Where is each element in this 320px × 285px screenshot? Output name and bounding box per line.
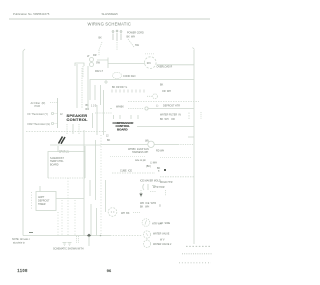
svg-text:RD: RD (86, 108, 90, 111)
svg-text:BK: BK (160, 84, 164, 87)
svg-text:ICE MAKER MOLD: ICE MAKER MOLD (140, 180, 161, 183)
wire compressor feed (108, 63, 145, 65)
EPTC box entry tick (57, 146, 59, 152)
timer text (38, 196, 50, 206)
wire light switch down (82, 66, 84, 78)
svg-text:BK OR RD YL: BK OR RD YL (112, 86, 128, 89)
ground symbol 2 (68, 243, 72, 246)
svg-text:SW: SW (135, 44, 140, 47)
svg-text:W V: W V (160, 239, 165, 242)
svg-text:BOARD: BOARD (50, 163, 59, 166)
bottom bus solid (23, 235, 110, 237)
left rail (22, 51, 24, 236)
svg-text:LO SIDE: LO SIDE (160, 222, 171, 225)
svg-text:WH/BK: WH/BK (116, 106, 124, 109)
dashed hor y113 (95, 112, 112, 114)
center vertical v91 (90, 204, 92, 236)
svg-text:SW: SW (96, 62, 101, 65)
right ticks (200, 112, 202, 119)
EPTC box (48, 152, 85, 179)
center vertical v96 (96, 208, 98, 236)
ice maker bracket (143, 184, 144, 190)
defrost timer box (36, 192, 56, 211)
ccb pin ticks (113, 115, 115, 119)
lamp circle 1 (90, 58, 94, 62)
dotted row y156.5 (110, 156, 145, 158)
connector J1 dark blob (59, 137, 66, 144)
timer dashed left (31, 192, 33, 210)
board pin tick row (112, 90, 144, 93)
svg-text:FRZ LT: FRZ LT (95, 70, 103, 73)
line y141 with jog (188, 136, 194, 138)
svg-text:J2: J2 (60, 113, 63, 116)
svg-text:G: G (159, 205, 161, 208)
svg-text:(BK): (BK) (146, 165, 151, 168)
svg-text:COND FAN: COND FAN (123, 75, 136, 78)
legend dotted row 3 (179, 262, 211, 264)
svg-text:SLHS66EE5: SLHS66EE5 (102, 12, 119, 16)
svg-text:BK: BK (99, 37, 103, 40)
wire from pin G down (116, 42, 118, 50)
wires below speaker control (66, 124, 68, 134)
timer box entry (39, 186, 41, 192)
svg-text:RD WH: RD WH (156, 150, 164, 153)
svg-text:BK: BK (107, 139, 111, 142)
thermistor connector dashes 2 (51, 112, 53, 114)
power cord pin N (120, 31, 122, 40)
right rail (193, 50, 195, 244)
dashed line voltage bus (26, 131, 106, 133)
svg-text:BK WH: BK WH (140, 205, 149, 208)
wire vertical v103 (103, 90, 105, 135)
EPTC text (50, 157, 64, 167)
svg-text:POWER CORD: POWER CORD (127, 32, 144, 35)
small dark dot y170 (164, 169, 166, 171)
svg-text:J2: J2 (106, 135, 109, 138)
dashed row y173 (112, 172, 155, 174)
condenser fan dashed circle (112, 72, 121, 78)
ground symbol 1 (63, 243, 67, 246)
svg-text:WATER VALVE 2: WATER VALVE 2 (153, 243, 172, 246)
svg-text:TIMER: TIMER (38, 203, 46, 206)
lamp feed diagonal (99, 42, 102, 50)
wire lamp step (97, 58, 108, 69)
svg-text:MOLD HTR: MOLD HTR (160, 181, 173, 184)
svg-text:WTR HOR: WTR HOR (153, 186, 165, 189)
center vertical v95 (95, 140, 97, 200)
legend dotted row 2 (182, 253, 212, 255)
grounds drop wires (76, 236, 78, 243)
svg-text:( ) WH: ( ) WH (150, 162, 157, 165)
power cord pin L (112, 31, 114, 40)
water valve circle 1 (143, 231, 150, 238)
svg-text:FF Thermistor (Y): FF Thermistor (Y) (28, 112, 49, 116)
svg-text:1108: 1108 (17, 268, 28, 273)
svg-text:SPKR J1: SPKR J1 (59, 151, 69, 154)
wire vertical v97 (96, 105, 98, 135)
light switch bracket (75, 63, 84, 66)
svg-text:Publication No. 5995541675: Publication No. 5995541675 (13, 12, 50, 16)
svg-text:BK WH: BK WH (127, 36, 136, 39)
run capacitor lead (147, 95, 153, 97)
line y126.5 to rail (137, 126, 194, 128)
power cord pin G (116, 30, 118, 41)
svg-text:PUR: PUR (35, 104, 41, 108)
bus junction 1 (87, 234, 91, 238)
svg-text:CONTROL: CONTROL (67, 117, 89, 122)
timer output wire (56, 198, 84, 200)
compressor control board label (113, 121, 135, 131)
NOTE text (12, 238, 30, 244)
main board outline top (90, 80, 194, 101)
svg-text:WATER FILTER IN: WATER FILTER IN (160, 114, 181, 117)
center vertical v84 (83, 130, 85, 236)
svg-text:DEFROST HTR: DEFROST HTR (163, 105, 180, 108)
wire vertical v88 (87, 66, 89, 110)
svg-text:wire to pin: wire to pin (135, 159, 147, 162)
node tick top of left rail (23, 49, 25, 51)
svg-text:WH BK: WH BK (121, 212, 130, 215)
svg-text:(M): (M) (145, 140, 149, 143)
EPTC box bottom dashed (48, 177, 85, 179)
legend dotted row 1 (186, 245, 211, 247)
wire vertical v77 (76, 64, 78, 108)
node junction mark (104, 80, 108, 84)
svg-text:WIRING SCHEMATIC: WIRING SCHEMATIC (88, 22, 132, 27)
svg-text:WATER VALVE: WATER VALVE (153, 233, 170, 236)
aux motor dashes (133, 212, 140, 214)
svg-text:96: 96 (107, 268, 112, 273)
svg-text:( ): ( ) (156, 104, 158, 107)
dashed rail y101 (128, 101, 199, 103)
node tick top of right rail (193, 48, 195, 50)
svg-text:SCHEMATIC SHOWN WITH: SCHEMATIC SHOWN WITH (53, 248, 84, 251)
dotted row right y157.5 (160, 157, 192, 159)
ice maker dashed drop (140, 190, 142, 198)
bottom bus dashed (110, 235, 142, 237)
svg-text:1 3 5: 1 3 5 (91, 105, 97, 108)
lamp feed drop (98, 50, 100, 56)
bus corner mark (29, 232, 33, 234)
wire vertical v92 (92, 113, 94, 128)
svg-text:BK: BK (86, 104, 90, 107)
header rule (9, 18, 210, 20)
line switch lever (dashed diagonal) (128, 39, 134, 47)
wire vertical v82 dashed (81, 68, 83, 108)
svg-text:FRZ Thermistor (G): FRZ Thermistor (G) (28, 122, 51, 126)
aux motor circle (108, 208, 117, 217)
run capacitor circle (153, 94, 158, 99)
evap fan feed (50, 144, 101, 146)
wire vertical v100 (100, 85, 102, 105)
thermistor connector dashes 1 (50, 102, 58, 104)
center vertical v90 (89, 180, 91, 196)
svg-text:at points to: at points to (13, 241, 25, 244)
svg-text:BK WH OR: BK WH OR (160, 118, 175, 121)
evap fan circle (148, 141, 154, 147)
lamp circle 2 (90, 63, 94, 67)
svg-text:HARNESS WH: HARNESS WH (132, 151, 148, 154)
center vertical v105 (105, 180, 107, 212)
svg-text:DR: DR (93, 54, 97, 57)
dashed verticals left cluster (61, 200, 63, 236)
wire compressor to right rail (157, 64, 194, 66)
svg-text:LT: LT (87, 55, 90, 58)
ice maker dashes (150, 191, 156, 193)
ice maker arrow mark (139, 194, 142, 197)
svg-text:OVERLOAD R: OVERLOAD R (157, 65, 173, 68)
heater circle (142, 219, 150, 227)
svg-text:R/C: R/C (147, 62, 151, 65)
thermistor bus dashed vertical (57, 98, 59, 128)
water valve circle 2 (143, 240, 150, 247)
svg-text:CUBE ICE: CUBE ICE (120, 170, 132, 173)
evap fan feed dashed (178, 144, 194, 146)
center vertical v101 dashed (100, 135, 102, 236)
dashed row y177 (160, 176, 194, 178)
bus junction 2 (100, 235, 102, 237)
svg-text:OR WH: OR WH (162, 90, 171, 93)
thermistor connector dashes 3 (51, 122, 53, 124)
svg-text:BOARD: BOARD (117, 127, 128, 131)
compressor run circle (145, 57, 157, 69)
defrost circuit line y108 (110, 106, 194, 111)
